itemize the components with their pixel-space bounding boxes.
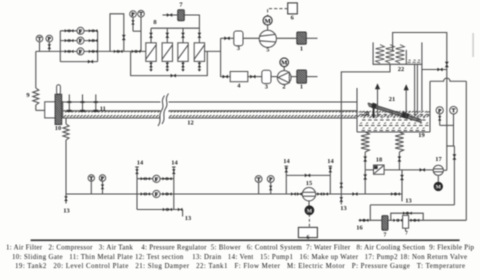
valve (tank2 right outlet) bbox=[398, 152, 402, 170]
water filter 7 (cooling water inlet) bbox=[178, 10, 185, 21]
valve (after softener) bbox=[410, 219, 419, 222]
wire: cooling section 3 top stem bbox=[182, 28, 184, 43]
valve (on bypass loop right leg) bbox=[122, 35, 126, 40]
valve (pump2 suction) bbox=[420, 168, 425, 172]
pump1 15 bbox=[302, 188, 315, 201]
drain line 13 (below mixing box) bbox=[63, 118, 69, 194]
svg-text:10: 10 bbox=[55, 125, 61, 132]
svg-text:13: 13 bbox=[405, 198, 411, 205]
label 15 (pump1) bbox=[306, 180, 312, 187]
wire: cooling section 2 top stem bbox=[166, 28, 168, 43]
valve (cooling water inlet) bbox=[167, 13, 172, 17]
label 6 (control system) bbox=[291, 15, 295, 22]
valve (cooling section 4 drain) bbox=[198, 63, 202, 68]
svg-text:22: 22 bbox=[398, 66, 404, 73]
wire: dashed control link to pump1 motor bbox=[308, 214, 310, 227]
water filter 7 (make-up) bbox=[382, 216, 388, 231]
label 1 (air filter, compressor row) bbox=[300, 83, 303, 90]
electric motor M (compressor) bbox=[280, 58, 289, 71]
svg-text:3: 3 bbox=[265, 83, 268, 90]
level control plate 20 bbox=[373, 104, 375, 118]
air cooling section 3 bbox=[178, 43, 188, 62]
svg-text:F: F bbox=[79, 50, 83, 56]
label 4 (pressure regulator) bbox=[237, 83, 241, 90]
label 7 (water filter) bbox=[179, 1, 183, 8]
label 14 (vent) bbox=[137, 160, 144, 167]
label 7 (softener) bbox=[405, 231, 408, 237]
drain tick (cooling section 1) bbox=[149, 69, 153, 71]
svg-text:13: 13 bbox=[63, 208, 69, 215]
svg-text:M: M bbox=[436, 185, 442, 191]
vent 14 (flow-meter box right) bbox=[172, 167, 176, 179]
label 2 (compressor) bbox=[282, 83, 285, 90]
valve (left outlet lower) bbox=[363, 174, 367, 179]
svg-text:T: T bbox=[38, 37, 42, 43]
air cooling section 1 bbox=[146, 43, 156, 62]
svg-text:1: 1 bbox=[300, 83, 303, 90]
valve (right of F meter row 2) bbox=[89, 39, 98, 42]
svg-text:12: 12 bbox=[187, 120, 193, 127]
wire: bottom main water line bbox=[66, 193, 402, 195]
cooling coil 3 in tank1 bbox=[396, 45, 405, 64]
svg-text:15: 15 bbox=[306, 180, 312, 187]
wire: blower row pipe bbox=[221, 37, 318, 39]
flow meter F (liquid, top row) bbox=[153, 175, 160, 183]
drain tick (cooling section 2) bbox=[166, 69, 170, 71]
wire: cooling section 1 drain stem bbox=[150, 61, 152, 69]
drain tick (cooling section 3) bbox=[181, 69, 185, 71]
mixing box (test-section inlet) bbox=[45, 102, 63, 118]
wire: dashed control link to blower motor bbox=[268, 9, 288, 16]
valve (tank1 feed, above main line) bbox=[340, 183, 344, 188]
svg-text:F: F bbox=[155, 177, 159, 183]
control system 6 bbox=[288, 3, 298, 14]
svg-text:7: 7 bbox=[179, 1, 183, 8]
svg-text:F: F bbox=[79, 39, 83, 45]
wire: cooling water top header bbox=[151, 15, 199, 28]
softener column (make-up) bbox=[403, 215, 409, 231]
caption rule bbox=[31, 239, 460, 241]
water in test pipe (hatch) bbox=[63, 111, 431, 117]
water level marks in tank1 bbox=[408, 60, 421, 62]
vent 14 (pump1 left) bbox=[285, 166, 289, 175]
cooling coil 2 in tank1 bbox=[386, 45, 395, 64]
control box 6 (pump1 drive) bbox=[298, 227, 317, 237]
wire: riser branch into tank2 bbox=[422, 69, 447, 71]
svg-text:21: 21 bbox=[389, 96, 395, 103]
drain 13 (tank1 feed junction) bbox=[340, 194, 344, 205]
valve (left of F meter row 3) bbox=[65, 50, 74, 53]
svg-text:9: 9 bbox=[26, 92, 29, 99]
thin metal plate pins 11 bbox=[67, 94, 98, 112]
label 19 (tank2) bbox=[418, 132, 424, 139]
valve (left of F meter row 1) bbox=[65, 29, 74, 32]
vent stack with arrow (right) bbox=[404, 84, 409, 119]
svg-text:4: 4 bbox=[237, 83, 241, 90]
wire: drain leg at main line east end bbox=[401, 170, 403, 202]
wire: tank1 overflow pipes into tank2 bbox=[415, 64, 422, 114]
svg-text:T: T bbox=[452, 108, 456, 114]
wire: pump2 discharge bbox=[444, 169, 447, 171]
temperature gauge T (before pump1) bbox=[255, 176, 262, 194]
vent stack with arrow (left) bbox=[375, 83, 380, 117]
svg-text:1: 1 bbox=[300, 45, 303, 52]
svg-text:14: 14 bbox=[283, 158, 290, 165]
valve (pump1 bypass) bbox=[305, 174, 310, 178]
label 17 (pump2) bbox=[435, 156, 442, 163]
label 7 (make-up filter) bbox=[384, 233, 387, 239]
valve (riser branch) bbox=[437, 68, 442, 72]
electric motor M (pump1) bbox=[305, 201, 314, 215]
temperature gauge T (bottom left) bbox=[88, 175, 94, 194]
pressure gauge P (upstream of flow-meter bank) bbox=[46, 35, 53, 51]
wire: cooling water inlet stub bbox=[163, 14, 178, 16]
valve (liquid FM top row left) bbox=[141, 177, 150, 180]
svg-text:10: Sliding Gate 11: Thin Me: 10: Sliding Gate 11: Thin Metal Plate 12… bbox=[12, 254, 467, 261]
valve (main line east 1) bbox=[352, 192, 357, 196]
valve (after make-up filter) bbox=[393, 219, 402, 222]
valve (liquid FM main row left) bbox=[141, 192, 150, 195]
svg-text:17: 17 bbox=[435, 156, 442, 163]
wire: cooling section 4 top stem bbox=[198, 28, 200, 43]
svg-text:14: 14 bbox=[137, 160, 144, 167]
svg-text:T: T bbox=[90, 176, 94, 182]
wire: tank1 drain to pump1 suction bbox=[341, 64, 390, 194]
water in tank2 bbox=[359, 112, 429, 131]
svg-text:7: 7 bbox=[384, 233, 387, 239]
valve (main line before P/T taps) bbox=[132, 50, 141, 53]
wire: cooling section 1 top stem bbox=[150, 28, 152, 43]
valve (right of F meter row 3) bbox=[89, 50, 98, 53]
flexible joint (tank2 right outlet) bbox=[395, 132, 403, 152]
flow meter F (liquid, main row) bbox=[153, 190, 160, 198]
wire: tank1 inlet loop bbox=[393, 33, 447, 51]
valve (cooling bypass rail) bbox=[171, 74, 176, 78]
svg-text:M: M bbox=[307, 208, 313, 214]
svg-text:F: F bbox=[79, 29, 83, 35]
svg-text:M: M bbox=[264, 18, 271, 25]
valve (east drain leg) bbox=[400, 175, 404, 180]
drain 13 (bottom left) bbox=[64, 194, 68, 204]
label 8 (air cooling section) bbox=[153, 19, 156, 26]
svg-text:M: M bbox=[281, 60, 288, 67]
label 13 (drain, bottom left) bbox=[63, 208, 69, 215]
valve (liquid FM top row right) bbox=[162, 177, 171, 180]
tank1 inner divider bbox=[405, 50, 407, 64]
pump2 17 bbox=[433, 165, 443, 175]
valve (riser, below tank1) bbox=[445, 62, 449, 68]
label 22 (tank1) bbox=[398, 66, 404, 73]
wire: main line cooling bank to supply bus bbox=[205, 50, 221, 52]
wire: test pipe bottom wall bbox=[63, 117, 357, 119]
tank2 19 walls bbox=[357, 81, 430, 132]
electric motor M (pump2) bbox=[434, 176, 442, 191]
svg-text:7: 7 bbox=[405, 231, 408, 237]
wire: recirculation line to make-up bbox=[370, 205, 454, 220]
valve (tank2 left outlet) bbox=[363, 152, 367, 170]
label 1 (air filter) bbox=[300, 45, 303, 52]
flow meter F (row 3) bbox=[77, 48, 84, 56]
label 3 (air tank, compressor side) bbox=[265, 83, 268, 90]
valve (make-up bypass) bbox=[403, 212, 412, 215]
svg-text:14: 14 bbox=[171, 160, 178, 167]
label 13 (drain, flow-meter rail) bbox=[185, 215, 191, 222]
caption line 1 bbox=[6, 245, 475, 252]
wire: compressor row pipe bbox=[221, 76, 318, 78]
compressor 2 bbox=[277, 71, 291, 85]
svg-text:5: 5 bbox=[266, 46, 269, 53]
wire: make-up bypass bbox=[391, 213, 423, 220]
valve (cooling section 3 inlet) bbox=[181, 33, 185, 38]
wire: cooling section 4 drain stem bbox=[198, 61, 200, 69]
pressure gauge P (bottom left) bbox=[99, 175, 105, 194]
cooling coil 1 in tank1 bbox=[376, 45, 385, 64]
wire: feed into mixing box bbox=[36, 109, 45, 111]
caption line 2 bbox=[12, 254, 467, 261]
wire: supply bus vertical bbox=[220, 38, 222, 77]
wire: bypass loop over main valve bbox=[110, 14, 124, 52]
pressure gauge P (before pump1) bbox=[267, 176, 274, 194]
air filter 1 (blower row) bbox=[297, 32, 307, 44]
svg-text:11: 11 bbox=[100, 106, 106, 113]
svg-text:T: T bbox=[139, 12, 143, 18]
non-return valve 18 bbox=[374, 165, 385, 174]
wire: cooling section 3 drain stem bbox=[182, 61, 184, 69]
label 12 (test section) bbox=[187, 120, 193, 127]
flexible joint (tank2 left outlet) bbox=[361, 132, 369, 152]
svg-text:19: 19 bbox=[418, 132, 424, 139]
valve (after regulator) bbox=[250, 75, 255, 79]
svg-text:13: 13 bbox=[340, 205, 346, 212]
liquid flow-meter manifold frame bbox=[137, 179, 183, 210]
caption line 3 bbox=[15, 263, 465, 270]
valve (compressor row) bbox=[223, 75, 228, 79]
blower 5 bbox=[259, 30, 276, 47]
label 21 (slug damper) bbox=[389, 96, 395, 103]
electric motor M (blower) bbox=[263, 16, 272, 30]
valve (liquid FM bottom rail) bbox=[163, 208, 172, 211]
svg-text:3: 3 bbox=[237, 45, 240, 52]
valve (right of F meter row 1) bbox=[89, 29, 98, 32]
valve (manifold bottom rail) bbox=[88, 60, 93, 64]
svg-text:F: F bbox=[155, 192, 159, 198]
pressure gauge P (riser) bbox=[436, 107, 443, 126]
slug damper 21 bbox=[368, 103, 421, 123]
valve (blower row) bbox=[224, 36, 229, 40]
drain 13 (flow-meter rail) bbox=[182, 210, 184, 217]
page edge artifact bbox=[472, 33, 474, 57]
air tank 3 (blower side) bbox=[234, 31, 243, 46]
wire: main line, flow-meter bank to cooling bank bbox=[98, 50, 146, 52]
air cooling section 4 bbox=[194, 43, 204, 62]
label 20 (level control plate) bbox=[363, 111, 369, 118]
valve (pump1 discharge) bbox=[317, 192, 328, 196]
wire: tank2 left outlet to bottom main bbox=[364, 170, 366, 194]
svg-text:1: Air Filter 2: Compressor: 1: Air Filter 2: Compressor 3: Air Tank … bbox=[6, 245, 475, 252]
label 10 (sliding gate) bbox=[55, 125, 61, 132]
valve (main line under bypass) bbox=[114, 50, 123, 53]
svg-text:19: Tank2 20: Level Control: 19: Tank2 20: Level Control Plate 21: Sl… bbox=[15, 263, 465, 270]
valve (cooling section 2 drain) bbox=[166, 63, 170, 68]
vent 14 (flow-meter box left) bbox=[135, 167, 139, 179]
label 18 (non return valve) bbox=[376, 157, 382, 164]
temperature gauge T (before cooling bank) bbox=[138, 10, 145, 51]
sliding gate 10 bbox=[55, 85, 62, 125]
wire: make-up water manifold with hop-over bbox=[430, 78, 466, 220]
valve (cooling section 1 inlet) bbox=[149, 33, 153, 38]
drain tick (cooling section 4) bbox=[198, 69, 202, 71]
label 11 (thin metal plate) bbox=[100, 106, 106, 113]
air tank 3 (compressor side) bbox=[262, 70, 271, 83]
air cooling section 2 bbox=[162, 43, 172, 62]
svg-text:2: 2 bbox=[282, 83, 285, 90]
flexible pipe 9 (riser drop) bbox=[33, 51, 39, 110]
label 13 (drain, east) bbox=[405, 198, 411, 205]
valve (pump1 suction) bbox=[291, 192, 302, 196]
svg-text:8: 8 bbox=[153, 19, 156, 26]
svg-text:13: 13 bbox=[185, 215, 191, 222]
valve (main line east 2) bbox=[391, 192, 400, 195]
label 5 (blower) bbox=[266, 46, 269, 53]
wire: test pipe top wall bbox=[63, 101, 357, 103]
flow-meter manifold frame bbox=[60, 31, 97, 62]
label 14 (vent, pump1 left) bbox=[283, 158, 290, 165]
svg-text:20: 20 bbox=[363, 111, 369, 118]
label 6 (pump1 drive) bbox=[307, 235, 310, 241]
wire: make-up water line bbox=[359, 219, 467, 221]
wire: gauge bracket to riser bbox=[440, 125, 455, 204]
label 14 (vent, right) bbox=[171, 160, 178, 167]
svg-text:T: T bbox=[257, 177, 261, 183]
svg-text:6: 6 bbox=[291, 15, 295, 22]
valve (cooling section 4 inlet) bbox=[198, 33, 202, 38]
pressure regulator 4 bbox=[230, 72, 248, 82]
valve (recirculation line) bbox=[453, 154, 457, 159]
valve (liquid FM main row right) bbox=[162, 192, 171, 195]
label 16 (make up water) bbox=[356, 225, 363, 232]
air filter 1 (compressor row) bbox=[297, 70, 307, 83]
vent 14 (pump1 right) bbox=[329, 166, 333, 175]
temperature gauge T (riser) bbox=[450, 106, 458, 146]
wire: pump1 bypass bbox=[286, 175, 330, 194]
label 13 (drain, tank1 feed) bbox=[340, 205, 346, 212]
wire: pump2 suction header bbox=[365, 169, 433, 171]
svg-text:16: 16 bbox=[356, 225, 363, 232]
label 9 (flexible pipe) bbox=[26, 92, 29, 99]
flow meter F (row 2) bbox=[77, 37, 84, 45]
valve (cooling section 2 inlet) bbox=[165, 33, 169, 38]
wire: cooling section 2 drain stem bbox=[166, 61, 168, 69]
label 14 (vent, pump1 right) bbox=[327, 158, 334, 165]
wire: pump2 riser bbox=[446, 41, 448, 170]
pipe break mark bbox=[158, 94, 169, 127]
temperature gauge T (upstream of flow-meter bank) bbox=[36, 35, 43, 51]
svg-text:14: 14 bbox=[327, 158, 334, 165]
flow meter F (row 1) bbox=[77, 27, 84, 35]
valve (cooling section 1 drain) bbox=[149, 63, 153, 68]
label 3 (air tank) bbox=[237, 45, 240, 52]
valve (bottom rail drain) bbox=[178, 208, 183, 211]
svg-text:18: 18 bbox=[376, 157, 382, 164]
wire: cooling bank bypass rail bbox=[131, 51, 208, 75]
wire: main air line left segment bbox=[36, 50, 61, 52]
valve (cooling section 3 drain) bbox=[181, 63, 185, 68]
valve (left of F meter row 2) bbox=[65, 39, 74, 42]
tank1 22 walls bbox=[373, 42, 422, 64]
pressure gauge P (before cooling bank) bbox=[130, 11, 141, 32]
valve (make-up inlet) bbox=[360, 219, 369, 222]
